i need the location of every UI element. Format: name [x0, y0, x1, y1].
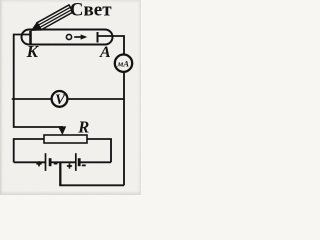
battery row wire left: [14, 161, 46, 163]
phototube envelope: [22, 30, 113, 45]
battery cell 1: [46, 153, 51, 171]
cathode plate K: [29, 31, 32, 44]
electron symbol: [66, 34, 87, 39]
rheostat right end wire: [87, 139, 111, 162]
voltmeter wire: [12, 98, 124, 100]
rheostat left end wire: [14, 139, 44, 162]
left rail wire: [14, 99, 63, 127]
light beam arrow: [28, 4, 74, 36]
voltmeter V: [52, 91, 68, 108]
microammeter мА: [115, 55, 132, 72]
right rail wire: [123, 72, 125, 185]
battery row wire right: [79, 161, 111, 163]
label minus 1: [54, 163, 58, 165]
label plus 2: [67, 163, 72, 168]
anode lead wire: [98, 36, 125, 54]
battery center tap wire: [59, 162, 61, 185]
battery row wire middle: [50, 161, 76, 163]
battery cell 2: [76, 153, 79, 171]
rheostat R body: [44, 135, 87, 143]
rheostat slider arrow: [58, 126, 66, 135]
label minus 2: [82, 164, 86, 166]
anode plate A: [97, 32, 99, 43]
label plus 1: [36, 161, 41, 166]
paper grain overlay: [0, 0, 1, 1]
cathode lead wire: [14, 35, 30, 100]
